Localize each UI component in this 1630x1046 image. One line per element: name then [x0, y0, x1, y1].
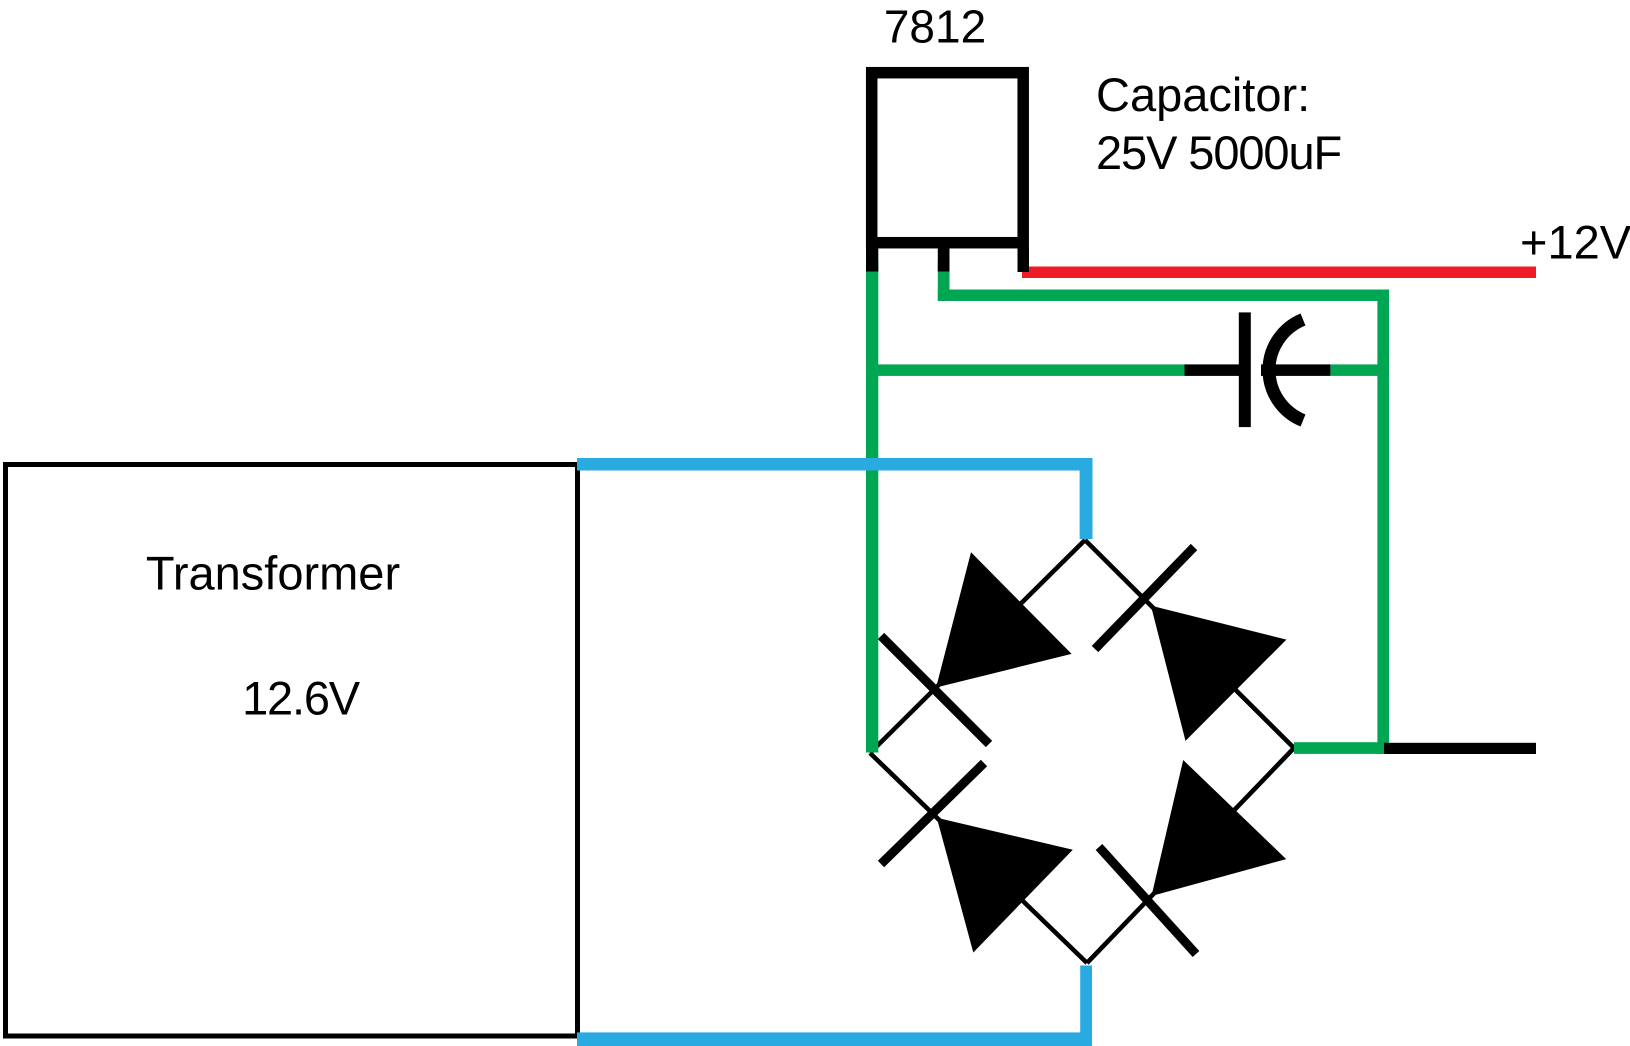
- diode D3 bottom-right triangle: [1152, 760, 1287, 896]
- wire green bridge right node to output: [1294, 742, 1384, 754]
- diode D4 bottom-left triangle: [937, 818, 1073, 953]
- svg-text:+12V: +12V: [1520, 216, 1630, 269]
- diode D1 cathode bar: [881, 636, 989, 744]
- capacitor C1 curved plate: [1269, 320, 1303, 421]
- diode D2 top-right triangle: [1151, 606, 1287, 741]
- capacitor C1 left lead: [1185, 364, 1240, 376]
- diode D2 cathode bar: [1095, 547, 1194, 649]
- svg-text:12.6V: 12.6V: [242, 672, 361, 725]
- wire blue top (transformer to bridge top node): [577, 458, 1093, 471]
- wire black DC output: [1384, 743, 1536, 754]
- node bridge diamond edges: [870, 540, 1294, 963]
- svg-text:Capacitor:: Capacitor:: [1096, 68, 1310, 121]
- diode D1 top-left triangle: [936, 552, 1072, 687]
- svg-text:7812: 7812: [884, 0, 986, 52]
- wire edge left-top: [870, 540, 1085, 753]
- wire red +12V output: [1022, 267, 1536, 279]
- wire green middle pin vertical: [938, 260, 950, 301]
- capacitor C1 straight plate: [1239, 312, 1251, 427]
- diode D4 cathode bar: [881, 763, 984, 864]
- svg-text:Transformer: Transformer: [146, 547, 400, 600]
- wire green right vertical (to bridge right node): [1377, 290, 1389, 755]
- wire green capacitor feed horizontal: [866, 364, 1185, 376]
- wire edge bottom-right: [1087, 748, 1294, 963]
- regulator U1 7812 box: [872, 73, 1024, 243]
- wire edge left-bottom: [870, 753, 1087, 963]
- wire green capacitor right lead: [1330, 364, 1389, 376]
- svg-text:25V 5000uF: 25V 5000uF: [1096, 126, 1341, 179]
- pin 2 regulator ground: [938, 248, 950, 272]
- wire green middle horizontal to right: [938, 290, 1389, 302]
- pin 3 regulator output: [1018, 248, 1030, 272]
- wire edge top-right: [1085, 540, 1294, 748]
- transformer T1 box: [6, 465, 578, 1037]
- wire blue bottom (transformer to bridge bottom node): [577, 1032, 1092, 1046]
- pin 1 regulator input: [866, 248, 878, 272]
- diode D3 cathode bar: [1099, 847, 1196, 954]
- wire green left (regulator input pin down to bridge left node): [866, 260, 878, 753]
- capacitor C1 right lead: [1261, 364, 1330, 376]
